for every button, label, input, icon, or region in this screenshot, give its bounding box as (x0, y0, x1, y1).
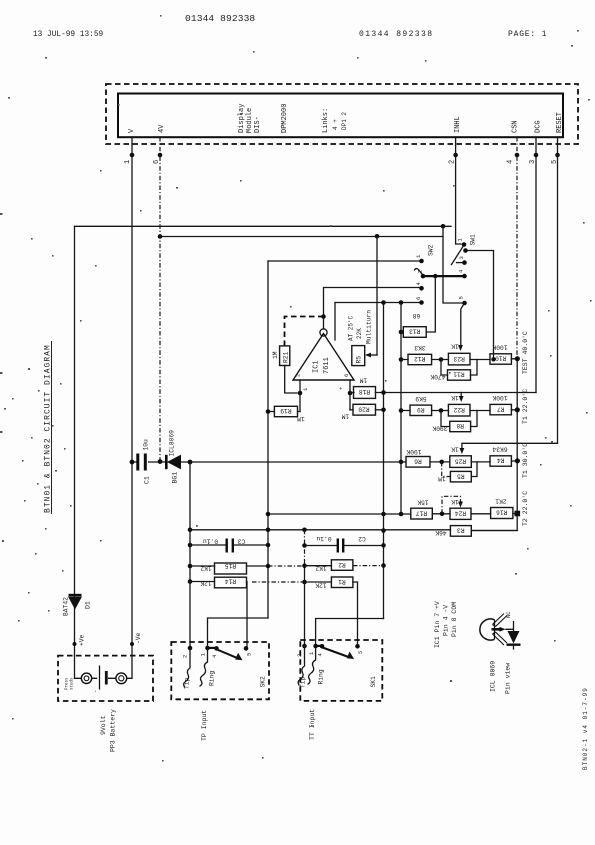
wire: R1 right drop to TT-5 (353, 582, 358, 646)
pin 5 number label (551, 160, 559, 164)
wire: R18 right to pin3 line (376, 392, 537, 394)
svg-text:DPM2000: DPM2000 (281, 104, 289, 133)
svg-text:R11: R11 (453, 371, 465, 378)
node row4 right on pin4 (515, 511, 521, 517)
node V1 rail530 (381, 528, 386, 533)
battery PP3 symbol (66, 656, 133, 693)
svg-text:1M: 1M (360, 377, 368, 384)
wire: SW2-1 feed from v268 (268, 260, 419, 262)
display module pin name 4V (158, 124, 166, 133)
svg-text:R3: R3 (457, 527, 465, 534)
display module outer dashed box (106, 84, 578, 144)
temperature annotation column (522, 331, 529, 526)
node V1 row4 (381, 512, 386, 517)
wire: R18 left (350, 392, 354, 394)
svg-text:Ring: Ring (318, 669, 325, 684)
pin 6 number label (153, 160, 161, 164)
display module inner box (118, 94, 563, 138)
trimmer R24 (1K) (450, 498, 471, 519)
svg-text:R20: R20 (358, 405, 370, 412)
resistor R1 (12K) (315, 577, 353, 589)
svg-text:4: 4 (458, 269, 465, 273)
ICL8069 pin view TO-92 package (480, 611, 512, 645)
svg-text:R21: R21 (282, 351, 289, 363)
resistor R2 (1K2) (315, 560, 353, 572)
svg-text:R25: R25 (455, 457, 467, 464)
svg-text:1: 1 (415, 254, 422, 258)
wire: SW2-6 feed (335, 302, 419, 304)
svg-text:5K9: 5K9 (415, 395, 427, 402)
wire: feedback dashed from output to R21 (285, 317, 324, 346)
trimmer R5 (vertical, 22K multiturn) (348, 310, 373, 366)
wire: pin6 drop (dash-dot) (159, 137, 161, 462)
node R19 left on v268 (266, 409, 271, 414)
svg-text:+: + (338, 387, 345, 390)
svg-text:22K: 22K (356, 328, 363, 339)
node v401 row3 (399, 460, 404, 465)
svg-text:4V: 4V (158, 124, 166, 133)
node pin2 node (298, 391, 303, 396)
IC1 pin note text (434, 601, 458, 648)
TT input caption (309, 709, 316, 740)
svg-text:5: 5 (458, 296, 465, 299)
svg-text:7611: 7611 (323, 357, 331, 374)
node v190 R15 (188, 564, 193, 569)
node -Ve wire (130, 642, 134, 646)
svg-text:NC: NC (505, 611, 512, 618)
diode D1 BAT42 (63, 595, 92, 616)
resistor R4 (6K34) (490, 446, 511, 466)
wire: row3 / C1 rail (132, 461, 517, 462)
wire: R11 bypass jogs (441, 360, 477, 376)
wire: R20 left (350, 409, 353, 411)
node row2 right on pin4 (515, 407, 520, 412)
wire: R22 wiper stub from R18 line (459, 393, 464, 403)
svg-text:470K: 470K (430, 373, 445, 380)
wire: opamp pin2 drop (299, 380, 301, 412)
wire: R19 right (298, 411, 301, 413)
svg-text:TP Input: TP Input (201, 710, 208, 741)
svg-text:2: 2 (417, 270, 424, 273)
svg-text:SK1: SK1 (370, 676, 377, 688)
svg-text:13 JUL-99 13:59: 13 JUL-99 13:59 (33, 31, 104, 39)
resistor R11 (470K) (430, 370, 470, 380)
svg-text:0.1u: 0.1u (316, 535, 331, 542)
svg-text:6: 6 (415, 297, 422, 300)
svg-text:C3: C3 (238, 538, 246, 545)
trimmer R22 (1K) (448, 394, 470, 416)
capacitor C2 (0.1u) (316, 535, 366, 552)
wire: R15-R2 dashdot link (268, 565, 305, 567)
svg-text:Pin view: Pin view (505, 663, 512, 694)
svg-text:2: 2 (295, 374, 302, 377)
svg-text:TT Input: TT Input (309, 709, 316, 740)
node row4 at v268 (266, 512, 271, 517)
wire: R5b bypass jogs (442, 462, 477, 477)
svg-text:R10: R10 (495, 355, 507, 362)
svg-text:-Ve: -Ve (135, 632, 142, 644)
resistor R12 (3K3) (408, 344, 432, 364)
wire: R21 bottom to pin2 node (285, 366, 297, 394)
wire: output bus V1 (383, 303, 385, 619)
svg-text:R22: R22 (453, 406, 465, 413)
node V1 R20 (381, 408, 386, 413)
TP input caption (201, 710, 208, 741)
fax header received number (faint) (359, 30, 433, 39)
ICL8069 pin view diode symbol (506, 622, 521, 650)
svg-text:Multiturn: Multiturn (366, 310, 373, 344)
svg-text:1M: 1M (272, 351, 279, 359)
resistor R15 (1K2) (200, 562, 246, 574)
resistor R13 (68) (403, 312, 426, 337)
svg-text:+Ve: +Ve (79, 634, 86, 646)
svg-text:4: 4 (415, 282, 422, 286)
svg-text:R14: R14 (225, 578, 237, 585)
svg-text:T1 30.0'C: T1 30.0'C (522, 443, 529, 478)
resistor R10 (100K) (490, 344, 511, 364)
wire: R20 right (376, 409, 384, 411)
svg-text:Pin 8 COM: Pin 8 COM (451, 602, 458, 637)
resistor R17 (15K) (411, 499, 433, 520)
svg-text:R9: R9 (417, 406, 425, 413)
resistor R9 (5K9) (410, 395, 432, 416)
node row2 mid (439, 408, 444, 413)
wire: trimmer feed v377 (376, 237, 378, 356)
svg-text:Display: Display (238, 104, 246, 133)
node V1 C2 (381, 543, 386, 548)
display module pin name RESET (556, 112, 564, 133)
wire: SW1-2 line (466, 251, 494, 360)
svg-text:2: 2 (296, 654, 303, 657)
wire: R8 bypass jogs (441, 411, 477, 427)
svg-text:0.1u: 0.1u (203, 538, 218, 545)
node v401 row2 (399, 408, 404, 413)
resistor R18 (1M) (354, 377, 376, 399)
wire: R14 left (190, 581, 215, 583)
svg-text:R23: R23 (453, 355, 465, 362)
svg-text:R5: R5 (457, 472, 465, 479)
svg-text:-: - (92, 690, 99, 693)
svg-text:3: 3 (458, 256, 465, 259)
node v401 row1 (399, 357, 404, 362)
fax header sender number (185, 13, 255, 24)
resistor R14 (12K) (200, 577, 246, 588)
drawing number bottom right (582, 687, 589, 770)
wire: C2 line (305, 545, 384, 547)
node v401 R13 (399, 330, 404, 335)
svg-text:2K1: 2K1 (495, 498, 507, 505)
svg-text:R19: R19 (280, 407, 292, 414)
svg-text:1: 1 (124, 160, 132, 164)
resistor R21 (vertical, 1M) (272, 346, 290, 366)
node v268 R15 (266, 564, 271, 569)
wire: rail A/B joiner down to SW1-5 (443, 226, 462, 303)
wire: +V rail A (75, 225, 452, 227)
svg-text:R7: R7 (497, 405, 505, 412)
svg-text:D1: D1 (85, 601, 92, 609)
svg-text:12K: 12K (200, 580, 212, 587)
svg-text:R13: R13 (409, 328, 421, 335)
wire: v335 down to opamp (334, 303, 336, 341)
node row1 right on pin4 (515, 356, 520, 361)
svg-text:R18: R18 (359, 388, 371, 395)
wire: pin3 drop (535, 137, 537, 393)
svg-text:6: 6 (343, 374, 350, 377)
svg-text:10u: 10u (143, 439, 150, 451)
display module title (238, 104, 262, 133)
svg-text:IC1: IC1 (313, 360, 321, 373)
svg-text:R8: R8 (456, 422, 464, 429)
svg-text:100K: 100K (492, 344, 507, 351)
resistor R8 (390K) (432, 421, 470, 431)
svg-text:1: 1 (308, 651, 315, 655)
display module links label (322, 108, 348, 133)
svg-text:INHL: INHL (454, 116, 462, 133)
battery caption 9Volt PP3 Battery (100, 709, 117, 752)
node rail B at pin6 (158, 234, 163, 239)
display module pin name V (128, 128, 136, 133)
TT jack contacts and switch (296, 644, 377, 688)
pin 2 number label (449, 160, 457, 164)
node row1 mid (439, 357, 444, 362)
svg-text:T2 22.0'C: T2 22.0'C (522, 491, 529, 526)
resistor R20 (1M) (342, 404, 376, 419)
svg-text:Ring: Ring (209, 671, 216, 686)
op-amp U IC1 7611 triangle (293, 329, 354, 391)
svg-text:Pin 4 -V: Pin 4 -V (443, 605, 450, 636)
svg-text:V: V (128, 128, 136, 133)
svg-text:4 +: 4 + (332, 119, 339, 130)
svg-text:C1: C1 (144, 476, 151, 484)
svg-text:C2: C2 (358, 535, 366, 542)
svg-text:3K3: 3K3 (414, 344, 426, 351)
node v304 R1 (302, 580, 307, 585)
node v190 C3 (188, 543, 193, 548)
svg-text:01344 892338: 01344 892338 (185, 13, 255, 24)
node v304 C2 (302, 543, 307, 548)
svg-text:studs: studs (70, 677, 75, 690)
svg-text:1K: 1K (451, 343, 459, 350)
svg-text:DCG: DCG (535, 120, 543, 133)
wire: row1 resistor ladder (401, 358, 517, 361)
svg-text:2: 2 (182, 655, 189, 658)
svg-text:TEST 40.0'C: TEST 40.0'C (522, 331, 529, 374)
svg-text:IC1 Pin 7 +V: IC1 Pin 7 +V (434, 601, 441, 648)
svg-text:1K: 1K (451, 394, 459, 401)
svg-text:RESET: RESET (556, 112, 564, 133)
wire: opamp pin6 drop (349, 380, 351, 410)
svg-text:Tip: Tip (300, 676, 307, 688)
svg-text:6K34: 6K34 (492, 446, 507, 453)
resistor R7 (100K) (490, 394, 511, 415)
schematic title (rotated, underlined) (44, 341, 53, 514)
fax header time stamp (33, 31, 104, 39)
wire: thick link SW2-2 to SW1-4 (423, 275, 463, 277)
node rail530 at v304 (302, 528, 307, 533)
resistor R3 (46K) (435, 526, 471, 537)
switch SW2 (415, 244, 435, 304)
pin junction dots under box (130, 153, 560, 158)
svg-text:Links:: Links: (322, 108, 330, 133)
node rail530 at v190 (188, 528, 193, 533)
svg-text:5: 5 (357, 651, 364, 654)
node rail530 at v268 (266, 528, 271, 533)
pin 3 number label (529, 160, 537, 164)
resistor R6 (100K) (406, 448, 430, 467)
svg-text:4: 4 (317, 653, 324, 657)
node v401 row4 (399, 512, 404, 517)
wire: row2 resistor ladder (401, 409, 517, 412)
svg-text:R1: R1 (338, 578, 346, 585)
svg-text:BG1: BG1 (172, 472, 179, 484)
node rail3 at pin1 (130, 460, 135, 465)
svg-text:Module: Module (246, 108, 254, 133)
battery dashed box (58, 656, 153, 701)
capacitor C3 (0.1u) (203, 538, 246, 553)
wire: TT ring wire (316, 619, 384, 647)
wire: dash-dot wiper link row4 (442, 496, 461, 514)
TP input dashed box SK2 (171, 642, 269, 699)
wire: R19 left (268, 411, 274, 413)
node v401 top (399, 300, 404, 305)
wire: C3 line (190, 544, 268, 546)
wire: R14-R1 dashdot link (252, 581, 305, 583)
svg-text:100K: 100K (406, 448, 421, 455)
wire: TP ring wire (208, 618, 269, 648)
svg-text:AT 25'C: AT 25'C (348, 315, 355, 341)
node V1 R18 line (381, 390, 386, 395)
node V1 R2 (381, 563, 386, 568)
node CSN line on row1 (491, 357, 495, 361)
svg-text:4: 4 (507, 160, 515, 164)
svg-text:1K: 1K (451, 446, 459, 453)
svg-text:1K2: 1K2 (315, 565, 327, 572)
svg-text:1K: 1K (451, 498, 459, 505)
wire: pin4 drop upper dash-dot (516, 137, 518, 359)
svg-text:R6: R6 (414, 458, 422, 465)
wire: SW2-4 feed from opamp output (324, 288, 420, 330)
node pin6 node (348, 391, 353, 396)
svg-text:01344 892338: 01344 892338 (359, 30, 433, 39)
wire: SW1-3 stub (457, 262, 463, 264)
node v304 R2 (302, 563, 307, 568)
wire: R14 right drop to TP-5 (246, 582, 249, 649)
display module pin name CSN (512, 120, 520, 133)
-Ve label (135, 632, 142, 644)
svg-text:390K: 390K (432, 425, 447, 432)
wire: rail B from pin6 (160, 236, 443, 238)
resistor R19 (1M) (274, 406, 304, 422)
node rail3 mid (439, 460, 444, 465)
+Ve label (79, 634, 86, 646)
wire: trimmer wiper arrow (365, 353, 377, 358)
node rail3 at v190 (188, 460, 193, 465)
svg-text:ICL8069: ICL8069 (169, 430, 176, 457)
wire: R2 left (305, 565, 332, 567)
trimmer R25 (1K) (450, 446, 472, 468)
capacitor C1 (10u) (138, 439, 151, 484)
wire: v190 drop (189, 462, 191, 648)
svg-text:1M: 1M (438, 475, 446, 482)
svg-text:46K: 46K (435, 529, 447, 536)
svg-text:R17: R17 (416, 509, 428, 516)
wire: pin4 drop lower to rail530 (471, 359, 517, 531)
node thick link at 435 (433, 274, 437, 278)
wire: +V left drop to battery (74, 226, 76, 655)
wire: v304 upper dash-dot (304, 530, 306, 566)
wire: pin5 drop (557, 137, 559, 443)
node output feedback tee (321, 314, 326, 319)
svg-text:PAGE: 1: PAGE: 1 (508, 30, 547, 39)
switch SW1 (452, 234, 477, 305)
svg-text:1: 1 (200, 653, 207, 657)
wire: v435 down to R13 (426, 276, 435, 332)
ICL8069 pin view caption (490, 661, 512, 694)
resistor R16 (2K1) (491, 498, 513, 519)
node rail B at x377 (375, 234, 380, 239)
node v190 R14 (188, 579, 193, 584)
svg-text:R15: R15 (225, 562, 237, 569)
wire: R2 right dashdot to V1 (353, 565, 384, 567)
svg-text:DIS-: DIS- (254, 116, 262, 133)
wire: pin5 y443 line to R25 wiper (460, 443, 558, 454)
svg-text:SK2: SK2 (260, 676, 267, 688)
svg-text:R2: R2 (338, 561, 346, 568)
diode BG1 ICL8069 (166, 430, 180, 484)
svg-text:BTN02-1 v4 01-7-99: BTN02-1 v4 01-7-99 (582, 687, 589, 770)
svg-text:Tip: Tip (184, 677, 191, 689)
arrow into R24 (458, 502, 463, 508)
wire: row4 rail514 (268, 513, 517, 516)
wire: pin1 drop (131, 137, 133, 656)
wire: rail530 (190, 529, 517, 532)
svg-text:9Volt: 9Volt (100, 715, 107, 735)
node row4 mid (440, 512, 445, 517)
svg-text:R5: R5 (356, 356, 363, 364)
svg-text:1M: 1M (342, 413, 350, 420)
node V1 top (381, 300, 386, 305)
display module pin name INHL (454, 116, 462, 133)
svg-text:R16: R16 (496, 509, 508, 516)
svg-text:R4: R4 (497, 457, 505, 464)
svg-text:R12: R12 (414, 355, 426, 362)
TT input dashed box SK1 (300, 640, 382, 701)
svg-text:BAT42: BAT42 (63, 597, 70, 616)
svg-text:4: 4 (211, 654, 218, 658)
node +Ve wire (73, 642, 77, 646)
svg-text:100K: 100K (492, 394, 507, 401)
resistor R5b (1M) (438, 471, 471, 482)
svg-text:PP3 Battery: PP3 Battery (110, 709, 117, 752)
display module name DPM2000 (281, 104, 289, 133)
node rail A at x443 (441, 224, 446, 229)
svg-text:R24: R24 (455, 510, 467, 517)
node rail3 right on pin4 (515, 458, 520, 463)
wire: v304 lower (304, 566, 306, 646)
svg-text:1: 1 (302, 387, 309, 391)
svg-text:Press: Press (66, 677, 70, 690)
TP jack contacts and switch (182, 646, 267, 689)
wire: v268 vertical (267, 261, 269, 618)
svg-text:68: 68 (413, 312, 421, 319)
svg-text:12K: 12K (315, 582, 327, 589)
wire: pin2 drop to SW1-1 (456, 137, 461, 244)
svg-text:1K2: 1K2 (200, 565, 212, 572)
trimmer R23 (1K) (448, 343, 470, 365)
svg-text:1M: 1M (297, 415, 305, 422)
node C3 right on v268 (266, 543, 271, 548)
svg-text:DP1 2: DP1 2 (341, 112, 348, 130)
